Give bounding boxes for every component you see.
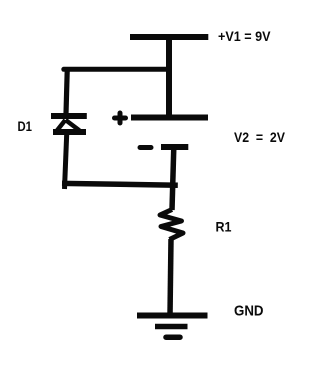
- svg-text:GND: GND: [234, 303, 264, 320]
- svg-text:+V1 = 9V: +V1 = 9V: [218, 28, 271, 44]
- svg-text:V2 = 2V: V2 = 2V: [234, 129, 286, 145]
- svg-text:D1: D1: [18, 118, 33, 134]
- svg-text:R1: R1: [216, 219, 232, 235]
